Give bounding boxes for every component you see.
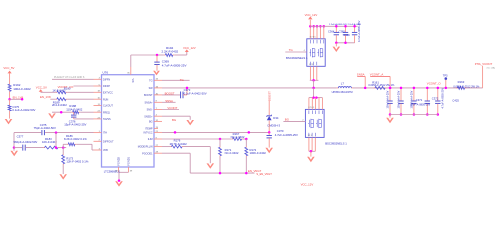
capacitor C375 inline	[34, 123, 56, 135]
wire diode to INTVCC node	[268, 120, 271, 133]
svg-text:12K-F-0402 0.1%: 12K-F-0402 0.1%	[66, 160, 88, 164]
svg-text:VCONT: VCONT	[167, 106, 177, 110]
svg-text:BG: BG	[149, 120, 153, 123]
net label BG at pin	[172, 118, 176, 122]
label BSC0902NELS lower	[325, 141, 347, 145]
resistor R189	[52, 98, 67, 107]
svg-text:SNSD+: SNSD+	[144, 115, 153, 118]
svg-text:RUN: RUN	[103, 98, 109, 101]
output cap labels C371 C372	[410, 88, 444, 109]
resistor R173 to ground	[62, 148, 89, 174]
wire comp branch	[14, 147, 22, 149]
svg-text:BSC0902NELS 1: BSC0902NELS 1	[325, 141, 347, 145]
svg-text:C366: C366	[344, 33, 351, 37]
svg-text:PGND1: PGND1	[126, 156, 130, 165]
wire BOOST stub	[162, 92, 180, 96]
resistor R186 divider	[63, 134, 87, 148]
wire BG to gate	[283, 117, 305, 121]
wire TG to gate	[285, 48, 307, 52]
wire ITH corner down	[13, 133, 16, 149]
IC part number label	[104, 169, 121, 173]
svg-text:28.7K-F-0402: 28.7K-F-0402	[170, 142, 188, 146]
svg-text:VCONT_A: VCONT_A	[370, 73, 384, 77]
svg-text:VCC_5V: VCC_5V	[3, 66, 14, 70]
ground under MODE resistor	[207, 163, 215, 168]
ground under C370	[265, 148, 273, 153]
wire R186 to VFB pin	[76, 144, 93, 150]
svg-text:75pF-A-0402-50V: 75pF-A-0402-50V	[34, 126, 56, 130]
junction SW-C373	[186, 87, 189, 90]
svg-text:DIFFN: DIFFN	[103, 78, 110, 81]
resistor R163 sense	[453, 80, 480, 90]
svg-text:NC-F-0402: NC-F-0402	[225, 151, 239, 155]
wire input bus	[310, 25, 357, 27]
svg-text:TG: TG	[289, 48, 293, 52]
svg-text:4.7uF-A-0805-25V: 4.7uF-A-0805-25V	[357, 20, 361, 42]
svg-text:R163: R163	[458, 80, 465, 84]
svg-text:BOOST: BOOST	[144, 94, 153, 97]
net label VCONT_A tap	[370, 73, 392, 90]
svg-text:SNSA+: SNSA+	[144, 101, 153, 104]
svg-text:2.2K-F-0402: 2.2K-F-0402	[162, 50, 179, 54]
svg-text:4: 4	[304, 50, 305, 52]
svg-text:10uF-A-0805-25V: 10uF-A-0805-25V	[410, 103, 431, 107]
wire R189 to RUN	[67, 98, 93, 100]
svg-text:SNSA: SNSA	[357, 73, 365, 77]
svg-text:FREQ: FREQ	[103, 111, 110, 114]
ground under C369	[153, 71, 160, 76]
wire SW rail	[162, 87, 483, 89]
input cap vertical value	[357, 20, 361, 42]
capacitor C370	[267, 129, 298, 148]
resistor R193	[8, 99, 35, 118]
svg-text:2: 2	[302, 120, 303, 122]
svg-text:BOOST: BOOST	[165, 92, 175, 96]
vertical tie ITH to comp	[55, 133, 58, 149]
wire SNSA+ stub	[162, 99, 176, 103]
net label S_EN_VNGT	[256, 172, 272, 176]
ground input caps	[333, 43, 341, 52]
svg-text:C372: C372	[432, 97, 439, 101]
wire R192 to EN_1V8 node	[9, 93, 11, 100]
transistor Q6 lower MOSFET pair	[305, 88, 324, 137]
node on ITH wire	[55, 131, 58, 134]
svg-text:VFB: VFB	[103, 149, 108, 152]
svg-text:0.1uF-A-0402-50V: 0.1uF-A-0402-50V	[184, 91, 207, 95]
resistor R167	[231, 132, 245, 140]
node on FREQ wire	[60, 111, 63, 114]
wire VIN top	[131, 55, 164, 67]
ground on FREQ wire	[48, 113, 56, 118]
resistor R171	[219, 139, 239, 173]
svg-text:EN_1V8: EN_1V8	[40, 95, 51, 99]
svg-text:VIN: VIN	[131, 79, 134, 83]
svg-text:ITEMP: ITEMP	[145, 127, 153, 130]
wires upper FET sources to tie	[310, 66, 316, 80]
svg-text:BOOST: BOOST	[267, 91, 271, 101]
svg-text:BG: BG	[172, 118, 176, 122]
ground output caps	[386, 115, 394, 124]
svg-text:C371: C371	[416, 98, 423, 102]
svg-text:ITH: ITH	[103, 132, 107, 135]
power flag VCC_12V input	[305, 13, 318, 26]
svg-text:VCC_12V: VCC_12V	[301, 182, 314, 186]
resistor R176	[170, 139, 188, 148]
resistor R183	[42, 137, 60, 149]
wire DIFFP with net label VCONT_CO	[58, 85, 94, 89]
wire boost label to diode	[268, 101, 270, 116]
svg-text:C364: C364	[328, 29, 335, 33]
ground bottom of left chain	[5, 119, 13, 124]
resistor R192	[8, 83, 31, 93]
wire ILIM row	[162, 138, 231, 141]
svg-text:4.7uF-A-0805-25V: 4.7uF-A-0805-25V	[275, 133, 298, 137]
svg-text:0.005A-F-2512 2W 1%: 0.005A-F-2512 2W 1%	[368, 83, 395, 87]
capacitors C364 C365 C366 input	[334, 25, 358, 44]
svg-text:INTVCC: INTVCC	[143, 131, 152, 134]
svg-text:PHA_VCONT: PHA_VCONT	[475, 62, 493, 66]
wire R167 to R172 branch	[243, 138, 248, 141]
ground under SNSD+	[186, 120, 194, 125]
note text gray	[54, 76, 85, 79]
svg-text:C365: C365	[339, 29, 346, 33]
diode D34 CMDSH-3	[267, 115, 281, 128]
svg-text:560pF-A-0402-50V: 560pF-A-0402-50V	[14, 140, 38, 144]
svg-text:CLKOUT: CLKOUT	[103, 105, 113, 108]
input cap values text	[329, 23, 362, 26]
svg-text:NC-F-0402: NC-F-0402	[231, 135, 245, 139]
svg-text:8.2K-F-0402 0.1%: 8.2K-F-0402 0.1%	[64, 137, 87, 141]
wire FREQ left segment	[52, 111, 71, 113]
wire R194 to VCC_12V	[174, 52, 187, 55]
svg-text:8 7 6 5: 8 7 6 5	[308, 107, 314, 109]
svg-text:100A-F-0402: 100A-F-0402	[13, 87, 31, 91]
svg-text:DIFFP: DIFFP	[103, 85, 110, 88]
net label BOOST vertical	[267, 91, 271, 101]
resistor R188	[66, 104, 83, 114]
power flag VCC_5V left	[3, 66, 14, 83]
wire R176 to ground	[184, 147, 211, 164]
wire R190 to EXTVCC	[67, 91, 93, 93]
ground under PGND pins	[115, 181, 123, 186]
svg-text:15pF-A-0402-25V: 15pF-A-0402-25V	[64, 123, 86, 127]
output cap vertical labels	[387, 90, 414, 108]
IC U76 LTC3866EUJ controller	[94, 67, 163, 182]
svg-text:LTC3866EUJ: LTC3866EUJ	[104, 169, 121, 173]
svg-text:VCC_12V: VCC_12V	[305, 13, 318, 17]
svg-text:VCC_12V: VCC_12V	[183, 46, 196, 50]
wire TAVSS row	[74, 118, 94, 120]
svg-text:C425: C425	[452, 99, 459, 103]
svg-text:8 7 6 5: 8 7 6 5	[310, 37, 316, 39]
resistor R161 sense	[368, 80, 395, 89]
svg-text:TG: TG	[149, 79, 152, 82]
svg-text:TAVSS: TAVSS	[103, 118, 111, 121]
label C425	[452, 99, 459, 103]
svg-text:110A-F-0402: 110A-F-0402	[66, 107, 83, 111]
transistor Q5 upper MOSFET pair	[307, 25, 325, 66]
svg-text:PLACE IT AT C1-A/3 GND S: PLACE IT AT C1-A/3 GND S	[54, 76, 85, 79]
svg-text:10K-F-0402: 10K-F-0402	[42, 140, 57, 144]
net label PHA_VCONT	[475, 62, 496, 88]
input cap designators	[328, 29, 350, 37]
svg-text:U76: U76	[103, 71, 109, 75]
svg-text:D34: D34	[273, 116, 279, 120]
resistor R190	[52, 87, 71, 94]
svg-text:L7: L7	[341, 81, 345, 85]
svg-text:SNSA: SNSA	[165, 99, 173, 103]
wires lower FET sources to tie	[309, 137, 315, 151]
resistor R194	[162, 46, 179, 57]
svg-text:2K4-F-0402: 2K4-F-0402	[52, 103, 67, 107]
svg-text:1 2 3: 1 2 3	[308, 135, 312, 137]
wire TG stub with label	[162, 78, 190, 82]
svg-text:0.1uF-A-0402-50V: 0.1uF-A-0402-50V	[12, 108, 35, 112]
wire PGOOD to bottom bus	[162, 153, 190, 173]
svg-text:100K-F-0402: 100K-F-0402	[250, 151, 267, 155]
svg-text:VCONT_O: VCONT_O	[427, 82, 442, 86]
power flag VCC_5V mid	[36, 86, 47, 93]
wire C377 to R183	[25, 147, 43, 149]
svg-text:VCC_5V: VCC_5V	[36, 86, 47, 90]
svg-text:4.7uF-A-0805-25V: 4.7uF-A-0805-25V	[162, 64, 187, 68]
wire R188 to FREQ pin	[80, 111, 93, 113]
wire SNSD+ to ground	[162, 116, 190, 120]
ground under R173	[59, 174, 67, 179]
svg-text:(Vo 14A): (Vo 14A)	[487, 66, 496, 69]
svg-text:DIFFOUT: DIFFOUT	[103, 140, 114, 143]
wire SNS- stub	[162, 106, 179, 110]
svg-text:0.005A-F-2512 2W 1%: 0.005A-F-2512 2W 1%	[453, 84, 480, 88]
power flag VCC_12V upper	[183, 46, 196, 52]
svg-text:TG: TG	[180, 78, 184, 82]
capacitors output bank	[387, 87, 440, 116]
node junction on VIN wire	[156, 54, 159, 57]
capacitor C376	[64, 112, 86, 126]
wire bottom bus	[190, 172, 254, 175]
svg-text:39: 39	[130, 171, 133, 173]
svg-text:BSC0902NELS 1: BSC0902NELS 1	[286, 56, 308, 60]
svg-text:PGND2: PGND2	[116, 156, 120, 165]
svg-text:TP5: TP5	[443, 73, 448, 77]
resistor R172	[245, 139, 266, 173]
net label VCC_12V bottom	[301, 182, 314, 186]
svg-text:19: 19	[156, 127, 159, 129]
test point TP5	[443, 73, 448, 89]
svg-text:S_EN_VNGT: S_EN_VNGT	[256, 172, 272, 176]
wire to R189	[50, 98, 55, 100]
svg-text:EXTVCC: EXTVCC	[103, 91, 113, 94]
wire upper FET source bracket	[310, 79, 319, 89]
svg-text:1K-F-0402: 1K-F-0402	[52, 88, 66, 92]
svg-text:1 2 3: 1 2 3	[309, 64, 313, 66]
svg-text:4.7uF-A-0805-25V: 4.7uF-A-0805-25V	[441, 88, 444, 109]
wire DIFFN	[52, 78, 94, 80]
svg-text:MODE/PLLIN: MODE/PLLIN	[138, 146, 153, 149]
svg-text:UP050-363-R47M: UP050-363-R47M	[332, 90, 353, 94]
svg-text:100uF-M-A-25V: 100uF-M-A-25V	[387, 90, 390, 108]
label BSC0902NELS upper	[286, 56, 308, 60]
svg-text:BG: BG	[285, 117, 289, 121]
capacitor C377	[14, 134, 38, 150]
svg-text:EN_1V8: EN_1V8	[13, 95, 24, 99]
net label VCONT_O	[427, 82, 442, 86]
node EN_1V8	[8, 95, 23, 100]
svg-text:ILIM: ILIM	[148, 138, 153, 141]
capacitor C373	[181, 88, 207, 98]
wire lower FET source bracket	[309, 150, 315, 157]
wire MODE row	[162, 146, 170, 148]
wire to VFB node	[60, 146, 67, 149]
net label EN_1V8 mid	[40, 95, 51, 99]
svg-text:C377: C377	[17, 134, 24, 138]
ground lower FETs	[307, 157, 315, 162]
net label EN_VNGT	[248, 169, 262, 173]
ground at ITH corner	[10, 148, 18, 157]
wire to R190	[41, 91, 56, 93]
wire ITH row	[14, 132, 94, 134]
capacitor C369	[154, 55, 186, 71]
svg-text:100uF-M-A-25V: 100uF-M-A-25V	[398, 90, 401, 108]
svg-text:SNS-: SNS-	[147, 109, 153, 112]
svg-text:SW: SW	[149, 87, 154, 90]
wire INTVCC to diode node	[162, 131, 269, 134]
inductor L7	[332, 81, 353, 94]
net label SNSA tap	[357, 73, 367, 90]
svg-text:PGOOD1: PGOOD1	[142, 152, 153, 155]
